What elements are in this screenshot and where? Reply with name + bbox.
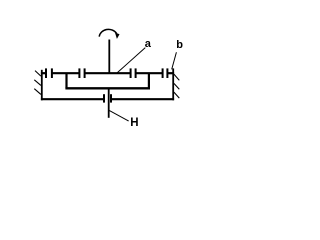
leader line to label H <box>109 110 128 121</box>
right wall hatch 1 <box>174 74 179 80</box>
wire bottom line left segment <box>41 98 104 100</box>
leader line to label b <box>172 52 177 69</box>
inner loop bottom wire <box>65 87 150 89</box>
svg-text:H: H <box>130 117 138 129</box>
inner loop left vertical wire <box>65 73 67 88</box>
capacitor C2 right plate <box>84 68 86 78</box>
capacitor C3 left plate <box>130 68 132 78</box>
right wall hatch 2 <box>174 83 179 89</box>
wire main line segment C3 to C4 <box>136 72 163 74</box>
capacitor C5 left plate <box>103 94 105 102</box>
capacitor C4 left plate <box>162 68 164 78</box>
wire main line segment wall to C1 <box>41 72 46 74</box>
shaft upper (input shaft a) <box>108 40 110 74</box>
wire main line segment C2 to C3 <box>85 72 131 74</box>
left wall (fixed support) <box>41 70 43 101</box>
wire main line segment C1 to C2 <box>52 72 80 74</box>
left wall hatch 1 <box>35 71 41 77</box>
capacitor C1 right plate <box>51 68 53 78</box>
capacitor C2 left plate <box>78 68 80 78</box>
svg-text:a: a <box>145 38 152 50</box>
inner loop right vertical wire <box>148 73 150 88</box>
wire main line segment C4 to right wall <box>167 72 174 74</box>
capacitor C1 left plate <box>45 68 47 78</box>
right wall (fixed support b) <box>172 68 174 100</box>
capacitor C4 right plate <box>166 68 168 78</box>
rotation arrowhead <box>115 32 120 39</box>
left wall hatch 2 <box>34 80 41 86</box>
leader line to label a <box>117 48 145 73</box>
left wall hatch 3 <box>34 89 41 95</box>
wire bottom line right segment <box>111 98 174 100</box>
svg-text:b: b <box>176 39 183 51</box>
right wall hatch 3 <box>174 92 179 98</box>
shaft lower (output shaft H) <box>108 88 110 118</box>
capacitor C3 right plate <box>135 68 137 78</box>
rotation arrow arc <box>99 29 116 36</box>
capacitor C5 right plate <box>110 94 112 102</box>
